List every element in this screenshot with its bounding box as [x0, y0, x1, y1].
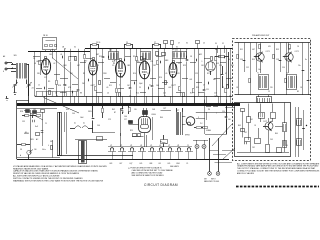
svg-text:R23: R23: [183, 65, 186, 67]
svg-text:6V6: 6V6: [168, 163, 171, 165]
valve V1: [41, 57, 50, 105]
svg-text:C27: C27: [124, 119, 127, 121]
svg-text:24: 24: [203, 43, 205, 45]
transformer T4 interstage: [287, 75, 297, 90]
label mid row scatter: [38, 85, 228, 95]
svg-text:6B8: 6B8: [150, 163, 153, 165]
label L5: [74, 123, 85, 125]
svg-text:470: 470: [177, 73, 180, 75]
transistor TR2: [283, 52, 293, 62]
svg-text:32: 32: [122, 112, 124, 114]
wire vertical drops with components: [35, 49, 231, 104]
wire dial drive second: [66, 112, 68, 154]
capacitor C41: [243, 61, 310, 81]
svg-text:R25: R25: [130, 130, 133, 132]
capacitor C22 cluster: [121, 106, 131, 118]
svg-text:OPT: OPT: [176, 110, 179, 112]
svg-text:500: 500: [228, 119, 231, 121]
svg-text:R7: R7: [162, 56, 164, 58]
svg-text:R64: R64: [275, 133, 278, 135]
svg-text:22: 22: [174, 85, 176, 87]
svg-text:OPT: OPT: [163, 108, 166, 110]
svg-text:30: 30: [215, 43, 217, 45]
svg-text:FS1: FS1: [50, 141, 53, 143]
svg-text:C46: C46: [97, 125, 100, 127]
svg-text:C44: C44: [72, 113, 75, 115]
label plugs: [204, 179, 219, 184]
switch S6 pickup marks: [207, 104, 218, 121]
label extra values scatter: [3, 53, 234, 87]
svg-text:R12: R12: [99, 56, 102, 58]
wire drops to plugs: [210, 138, 227, 172]
svg-text:6K7: 6K7: [120, 163, 123, 165]
transistor switch S3 mains: [27, 150, 33, 160]
svg-text:6K8: 6K8: [37, 61, 40, 63]
svg-text:R27: R27: [207, 73, 210, 75]
svg-text:25: 25: [126, 42, 128, 44]
wire AVC ladder ticks: [45, 96, 219, 104]
wire chassis bus: [17, 104, 240, 106]
svg-text:4x: 4x: [74, 123, 76, 125]
svg-text:R55: R55: [252, 59, 255, 61]
svg-text:C23: C23: [214, 93, 217, 95]
svg-text:1M5: 1M5: [127, 65, 130, 67]
svg-text:220: 220: [270, 87, 273, 89]
wire heater chain upper: [57, 155, 133, 157]
fuse F1 thermal: [160, 135, 168, 147]
capacitor C2 oscillator gang: [12, 82, 17, 91]
capacitor C64 inner: [241, 129, 247, 145]
svg-text:C25: C25: [195, 73, 198, 75]
resistor group extra: [49, 57, 229, 97]
svg-text:3: 3: [198, 117, 199, 119]
svg-text:.002: .002: [189, 79, 192, 81]
svg-text:R44: R44: [160, 117, 163, 119]
capacitor group coupling caps: [45, 56, 225, 93]
wire unit mid rail: [235, 94, 311, 96]
label heater pins: [110, 163, 189, 165]
svg-text:C5: C5: [97, 65, 99, 67]
wire interconnect jogs upper: [33, 57, 232, 93]
svg-text:R11: R11: [109, 85, 112, 87]
svg-text:R19: R19: [190, 93, 193, 95]
resistor R22: [102, 106, 104, 118]
wire heater top link: [108, 146, 192, 148]
svg-text:EM4: EM4: [177, 163, 180, 165]
svg-text:4K7: 4K7: [288, 49, 291, 51]
svg-text:INPUT: INPUT: [211, 179, 216, 181]
svg-text:4K7: 4K7: [77, 65, 80, 67]
svg-text:PU: PU: [208, 109, 210, 111]
svg-text:B9: B9: [297, 91, 299, 93]
note text right: [237, 162, 320, 175]
wire unit left taps: [215, 108, 236, 163]
box power unit outline: [17, 100, 61, 159]
svg-text:8uF: 8uF: [35, 126, 38, 128]
svg-text:6J5: 6J5: [159, 163, 162, 165]
svg-text:R2: R2: [83, 73, 85, 75]
svg-text:50pF: 50pF: [139, 83, 143, 85]
svg-text:50c/s: 50c/s: [42, 149, 46, 151]
transformer IFT3: [173, 52, 187, 59]
label inner values: [238, 119, 288, 149]
svg-text:30: 30: [74, 46, 76, 48]
svg-text:6Q7: 6Q7: [130, 163, 133, 165]
svg-text:4K7: 4K7: [252, 49, 255, 51]
svg-text:C3: C3: [55, 93, 57, 95]
resistor R3 on rail: [155, 44, 159, 46]
resistor R21 cluster: [22, 110, 53, 158]
wire diagonal switch link: [44, 98, 80, 114]
svg-text:C48: C48: [152, 109, 155, 111]
svg-text:30: 30: [186, 43, 188, 45]
switch S1 waveband box: [43, 38, 57, 50]
svg-text:C6: C6: [107, 93, 109, 95]
svg-text:LS: LS: [34, 63, 36, 65]
svg-text:C56: C56: [240, 59, 243, 61]
resistor R66 side column: [296, 107, 308, 157]
svg-text:1K: 1K: [254, 125, 256, 127]
svg-text:OC71: OC71: [266, 51, 270, 53]
ground aerial: [6, 96, 8, 98]
wire mains lead diagonal: [222, 148, 235, 160]
svg-text:C40: C40: [124, 116, 127, 118]
transistor TR1: [254, 52, 264, 62]
svg-text:C61: C61: [250, 119, 253, 121]
box pre-amplifier dashed enclosure: [233, 39, 311, 161]
svg-text:6V6: 6V6: [140, 163, 143, 165]
svg-text:C17: C17: [44, 77, 47, 79]
label top rail values: [96, 42, 178, 49]
ground oscillator: [14, 91, 16, 93]
svg-text:OC71: OC71: [295, 51, 299, 53]
svg-text:50: 50: [286, 145, 288, 147]
svg-text:250: 250: [128, 121, 131, 123]
svg-text:12: 12: [38, 85, 40, 87]
svg-text:16uF: 16uF: [80, 117, 84, 119]
svg-text:47: 47: [225, 73, 227, 75]
svg-text:T1: T1: [257, 73, 259, 75]
svg-text:R16: R16: [159, 77, 162, 79]
svg-text:C52: C52: [246, 67, 249, 69]
transformer T1 aerial coil: [11, 63, 27, 79]
svg-text:32: 32: [222, 43, 224, 45]
svg-text:SPKR: SPKR: [185, 135, 190, 137]
svg-text:C11: C11: [206, 89, 209, 91]
svg-text:C28: C28: [219, 65, 222, 67]
label power values: [20, 109, 49, 157]
lamp DL2 dial: [193, 140, 208, 159]
resistor R17 top strip parts: [164, 41, 205, 49]
svg-text:C13: C13: [147, 73, 150, 75]
resistor R61 vertical: [283, 103, 287, 153]
svg-text:C9: C9: [112, 65, 114, 67]
svg-text:C15: C15: [163, 93, 166, 95]
svg-text:0.1: 0.1: [149, 85, 151, 87]
wire inner links: [237, 111, 289, 153]
label bottom area scatter: [24, 95, 231, 151]
svg-text:2K2: 2K2: [153, 65, 156, 67]
svg-text:47: 47: [203, 85, 205, 87]
svg-text:IF1: IF1: [113, 63, 115, 65]
lamp P2 pilot: [216, 172, 220, 176]
dial scale assembly: [58, 112, 65, 156]
svg-text:C63: C63: [270, 139, 273, 141]
svg-text:29 30: 29 30: [96, 42, 100, 44]
svg-text:C2: C2: [178, 63, 180, 65]
svg-text:27: 27: [178, 43, 180, 45]
wire unit verticals: [239, 43, 309, 96]
svg-text:8: 8: [63, 85, 64, 87]
svg-text:C4: C4: [33, 58, 35, 60]
svg-text:3: 3: [119, 85, 120, 87]
note text middle: [128, 167, 173, 177]
svg-text:.02: .02: [53, 63, 55, 65]
svg-text:R26: R26: [20, 111, 23, 113]
svg-text:AND FULL VALUES: AND FULL VALUES: [237, 172, 255, 175]
svg-text:2B: 2B: [62, 46, 64, 48]
transformer IFT1: [109, 52, 119, 60]
svg-text:SET: SET: [204, 179, 207, 181]
svg-text:T2: T2: [286, 73, 288, 75]
svg-text:PRE-AMPLIFIER UNIT: PRE-AMPLIFIER UNIT: [252, 34, 269, 37]
svg-text:R15: R15: [196, 87, 199, 89]
capacitor C36: [221, 66, 224, 88]
svg-text:25: 25: [45, 123, 47, 125]
svg-text:5Y3: 5Y3: [108, 119, 111, 121]
resistor R40: [237, 55, 287, 83]
resistor R30 gram network: [194, 127, 208, 129]
capacitor C1 tuning gang: [26, 82, 31, 96]
svg-text:6V6G: 6V6G: [152, 114, 157, 116]
switch S2 ladder contacts: [36, 92, 79, 97]
wire diagonal AGC link: [52, 58, 78, 80]
svg-text:C31: C31: [22, 121, 25, 123]
speaker LS1: [182, 113, 232, 126]
capacitor C20: [41, 112, 44, 146]
svg-text:24: 24: [32, 88, 34, 90]
wire HT rail top: [85, 48, 232, 50]
svg-text:15: 15: [93, 85, 95, 87]
wire diagonal to sockets: [212, 124, 232, 146]
valve V2: [89, 58, 98, 105]
heater chain valves: [108, 148, 193, 160]
svg-text:FS: FS: [20, 149, 22, 151]
svg-text:R53: R53: [276, 49, 279, 51]
valve V4: [139, 59, 149, 105]
svg-text:25: 25: [139, 87, 141, 89]
svg-text:B7: B7: [114, 112, 116, 114]
wire TR1 collector drop: [259, 43, 291, 74]
svg-text:2B 30: 2B 30: [43, 35, 48, 37]
junction dots: [34, 48, 230, 104]
wire AVC line: [35, 96, 232, 98]
resistor R20: [17, 144, 30, 146]
svg-text:C21: C21: [70, 73, 73, 75]
transformer IFT2: [141, 52, 151, 60]
box tone unit inner: [235, 103, 291, 157]
svg-text:10u: 10u: [258, 69, 261, 71]
label left column: [215, 43, 225, 53]
label unit values: [236, 46, 307, 93]
note text left: [13, 165, 107, 182]
svg-text:305: 305: [14, 55, 17, 57]
svg-text:CIRCUIT DIAGRAM: CIRCUIT DIAGRAM: [144, 183, 178, 187]
terminal A aerial: [5, 62, 7, 64]
svg-text:R10: R10: [136, 93, 139, 95]
valve V7 output: [139, 108, 153, 147]
svg-text:.01: .01: [60, 54, 62, 56]
svg-text:240: 240: [34, 149, 37, 151]
svg-text:.1: .1: [201, 61, 202, 63]
svg-text:R9: R9: [48, 81, 50, 83]
svg-text:.01: .01: [116, 73, 118, 75]
svg-text:5: 5: [227, 85, 228, 87]
svg-text:C54: C54: [282, 67, 285, 69]
svg-text:6X5: 6X5: [120, 109, 123, 111]
svg-text:OC72: OC72: [263, 121, 267, 123]
capacitor C30 electrolytic can: [79, 141, 87, 164]
inductor L5 humps: [70, 126, 93, 129]
lamp P1 pilot: [208, 172, 212, 176]
resistor R13 between stages: [156, 52, 166, 56]
svg-text:R57: R57: [286, 59, 289, 61]
svg-text:25u: 25u: [298, 65, 301, 67]
svg-text:T: T: [216, 113, 217, 115]
terminal E earth: [5, 68, 7, 70]
wire HT rail left: [28, 51, 90, 53]
svg-text:31: 31: [176, 47, 178, 49]
capacitor C35: [225, 106, 228, 134]
lamp DL1 dial: [195, 140, 199, 159]
svg-text:C8: C8: [121, 77, 123, 79]
svg-text:SEE SERVICE SHEET FOR DETAILS: SEE SERVICE SHEET FOR DETAILS: [132, 174, 165, 177]
transistor TR3: [263, 121, 273, 131]
svg-text:C58: C58: [276, 59, 279, 61]
label rail values left: [62, 46, 76, 48]
svg-text:C14: C14: [150, 61, 153, 63]
svg-text:R51: R51: [240, 49, 243, 51]
resistor R2 on rail: [127, 44, 131, 46]
resistor R62 bottom row: [245, 138, 282, 153]
svg-text:C50: C50: [222, 111, 225, 113]
resistor R35: [215, 52, 229, 88]
svg-text:E: E: [3, 71, 4, 73]
transformer T3 interstage: [259, 75, 269, 90]
svg-text:IF2: IF2: [145, 63, 147, 65]
resistor R60 top hatched: [241, 104, 276, 141]
wire AF coupling: [121, 108, 144, 137]
wire aerial coil to gang: [17, 64, 30, 104]
svg-text:.05: .05: [106, 87, 108, 89]
label heater designators: [110, 145, 189, 147]
svg-text:R31: R31: [231, 65, 234, 67]
wire S1 drops: [46, 50, 55, 52]
svg-text:R63: R63: [238, 125, 241, 127]
svg-text:R40: R40: [66, 109, 69, 111]
transformer T5 driver: [257, 95, 272, 103]
svg-text:4x: 4x: [83, 123, 85, 125]
wire heater chain return: [17, 159, 229, 161]
svg-text:R14: R14: [133, 73, 136, 75]
svg-text:R3: R3: [133, 56, 135, 58]
label coupling: [114, 112, 133, 132]
transformer T2 output: [161, 108, 183, 135]
rule dashed bottom right: [236, 186, 319, 188]
svg-text:6K8: 6K8: [110, 163, 113, 165]
svg-text:R18: R18: [58, 85, 61, 87]
label component values upper: [33, 54, 230, 91]
resistor R24 grid: [129, 121, 141, 137]
wire unit top rail: [235, 42, 311, 44]
svg-text:C62: C62: [244, 132, 247, 134]
svg-text:2K2: 2K2: [252, 147, 255, 149]
valve V3: [116, 59, 126, 105]
svg-text:27: 27: [154, 42, 156, 44]
svg-text:DET: DET: [96, 54, 99, 56]
wire diagonal link 2: [30, 113, 43, 120]
valve V5: [169, 61, 177, 105]
wire smoothing link: [75, 133, 147, 147]
svg-text:6Q7: 6Q7: [112, 61, 115, 63]
svg-text:8u: 8u: [305, 59, 307, 61]
svg-text:25: 25: [268, 91, 270, 93]
svg-text:PL: PL: [187, 163, 189, 165]
svg-text:.05: .05: [165, 73, 167, 75]
box pickup connection: [205, 100, 228, 135]
svg-text:6B8: 6B8: [165, 60, 168, 62]
svg-text:R8: R8: [80, 93, 82, 95]
svg-text:WAVEBAND SWITCH SHOWN IN THE L: WAVEBAND SWITCH SHOWN IN THE LONG WAVE P…: [13, 179, 104, 182]
wire aerial leads: [7, 63, 13, 70]
svg-text:.002: .002: [168, 87, 171, 89]
svg-text:680: 680: [213, 79, 216, 81]
svg-text:IFT 465: IFT 465: [172, 50, 178, 52]
resistor R1 on rail: [93, 44, 97, 46]
valve V6 triode: [206, 62, 216, 75]
wire v drop mid: [92, 106, 115, 133]
svg-text:R42: R42: [112, 109, 115, 111]
